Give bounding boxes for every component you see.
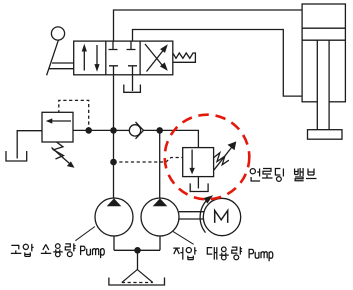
valve V1 manual lever xyxy=(51,27,64,40)
relief valve RV1 adjustable spring xyxy=(54,142,64,159)
label: 저압 대용량 Pump xyxy=(173,247,272,262)
wire: valve port B up and over to cylinder rod end xyxy=(133,30,303,97)
valve V1 left position parallel arrows xyxy=(84,45,97,71)
motor M1 rotation arrow xyxy=(200,199,208,233)
wire: P line to check valve xyxy=(114,129,130,131)
unloading valve UV1 adjustable spring xyxy=(214,153,229,165)
unloading valve UV1 body xyxy=(183,148,214,177)
wire: valve T port to tank xyxy=(132,75,134,91)
red dashed highlight circle around unloading valve xyxy=(165,115,250,200)
wire: pump suction lines to common strainer xyxy=(114,236,160,270)
node: P line / relief branch junction xyxy=(110,127,117,134)
motor M1 letter xyxy=(215,211,228,223)
unloading valve UV1 internal arrow xyxy=(191,150,193,170)
node: relief pilot junction xyxy=(85,127,92,134)
pilot line (dashed) unloading valve from P line xyxy=(114,158,183,163)
wire: relief valve outlet to tank xyxy=(17,131,42,159)
valve V1 body (4/3 directional control valve) xyxy=(74,41,173,75)
valve V1 return spring xyxy=(173,53,196,62)
check valve CV1 xyxy=(129,125,140,136)
shaft coupling pump P2 to motor xyxy=(179,212,204,219)
tank symbol at relief valve outlet xyxy=(6,151,27,161)
label: 언로딩 밸브 xyxy=(250,168,316,181)
pilot line (dashed) relief valve xyxy=(59,100,89,130)
tank T main reservoir xyxy=(109,278,165,286)
wire: unloading valve outlet to tank xyxy=(197,177,199,189)
pump P2 (low pressure large capacity) xyxy=(141,198,179,236)
cylinder C1 foot plate xyxy=(308,130,343,140)
tank symbol at unloading valve outlet xyxy=(190,183,208,191)
label leader line pump P1 xyxy=(75,227,95,241)
relief valve RV1 body xyxy=(42,112,73,142)
cylinder C1 rod xyxy=(317,40,329,130)
wire: relief valve inlet from P line xyxy=(73,129,114,131)
relief valve RV1 internal arrow xyxy=(52,120,72,122)
wire: branch to unloading valve inlet xyxy=(160,130,199,147)
node: unloading pilot tap on P line xyxy=(110,159,117,166)
wire: check valve to right pump branch xyxy=(144,129,160,131)
strainer S1 xyxy=(122,270,153,283)
motor M1 circle xyxy=(203,198,240,235)
node: right pump / unloading branch junction xyxy=(156,127,163,134)
wire: valve port A up and over to cylinder cap end xyxy=(114,10,303,41)
label leader line pump P2 xyxy=(173,231,194,244)
pump P1 (high pressure small capacity) xyxy=(95,198,133,236)
node: suction junction xyxy=(134,247,141,254)
valve V1 right position crossed arrows xyxy=(145,44,165,72)
cylinder C1 piston xyxy=(302,28,345,40)
tank symbol under valve T port xyxy=(124,85,141,93)
wire: pressure line P from valve down to pump P1 xyxy=(113,75,115,199)
label: 고압 소용량 Pump (korean drawn as strokes) xyxy=(11,243,105,258)
wire: branch down to pump P2 xyxy=(159,130,161,198)
valve V1 center position blocked ports xyxy=(109,41,136,49)
cylinder C1 barrel xyxy=(302,4,345,102)
